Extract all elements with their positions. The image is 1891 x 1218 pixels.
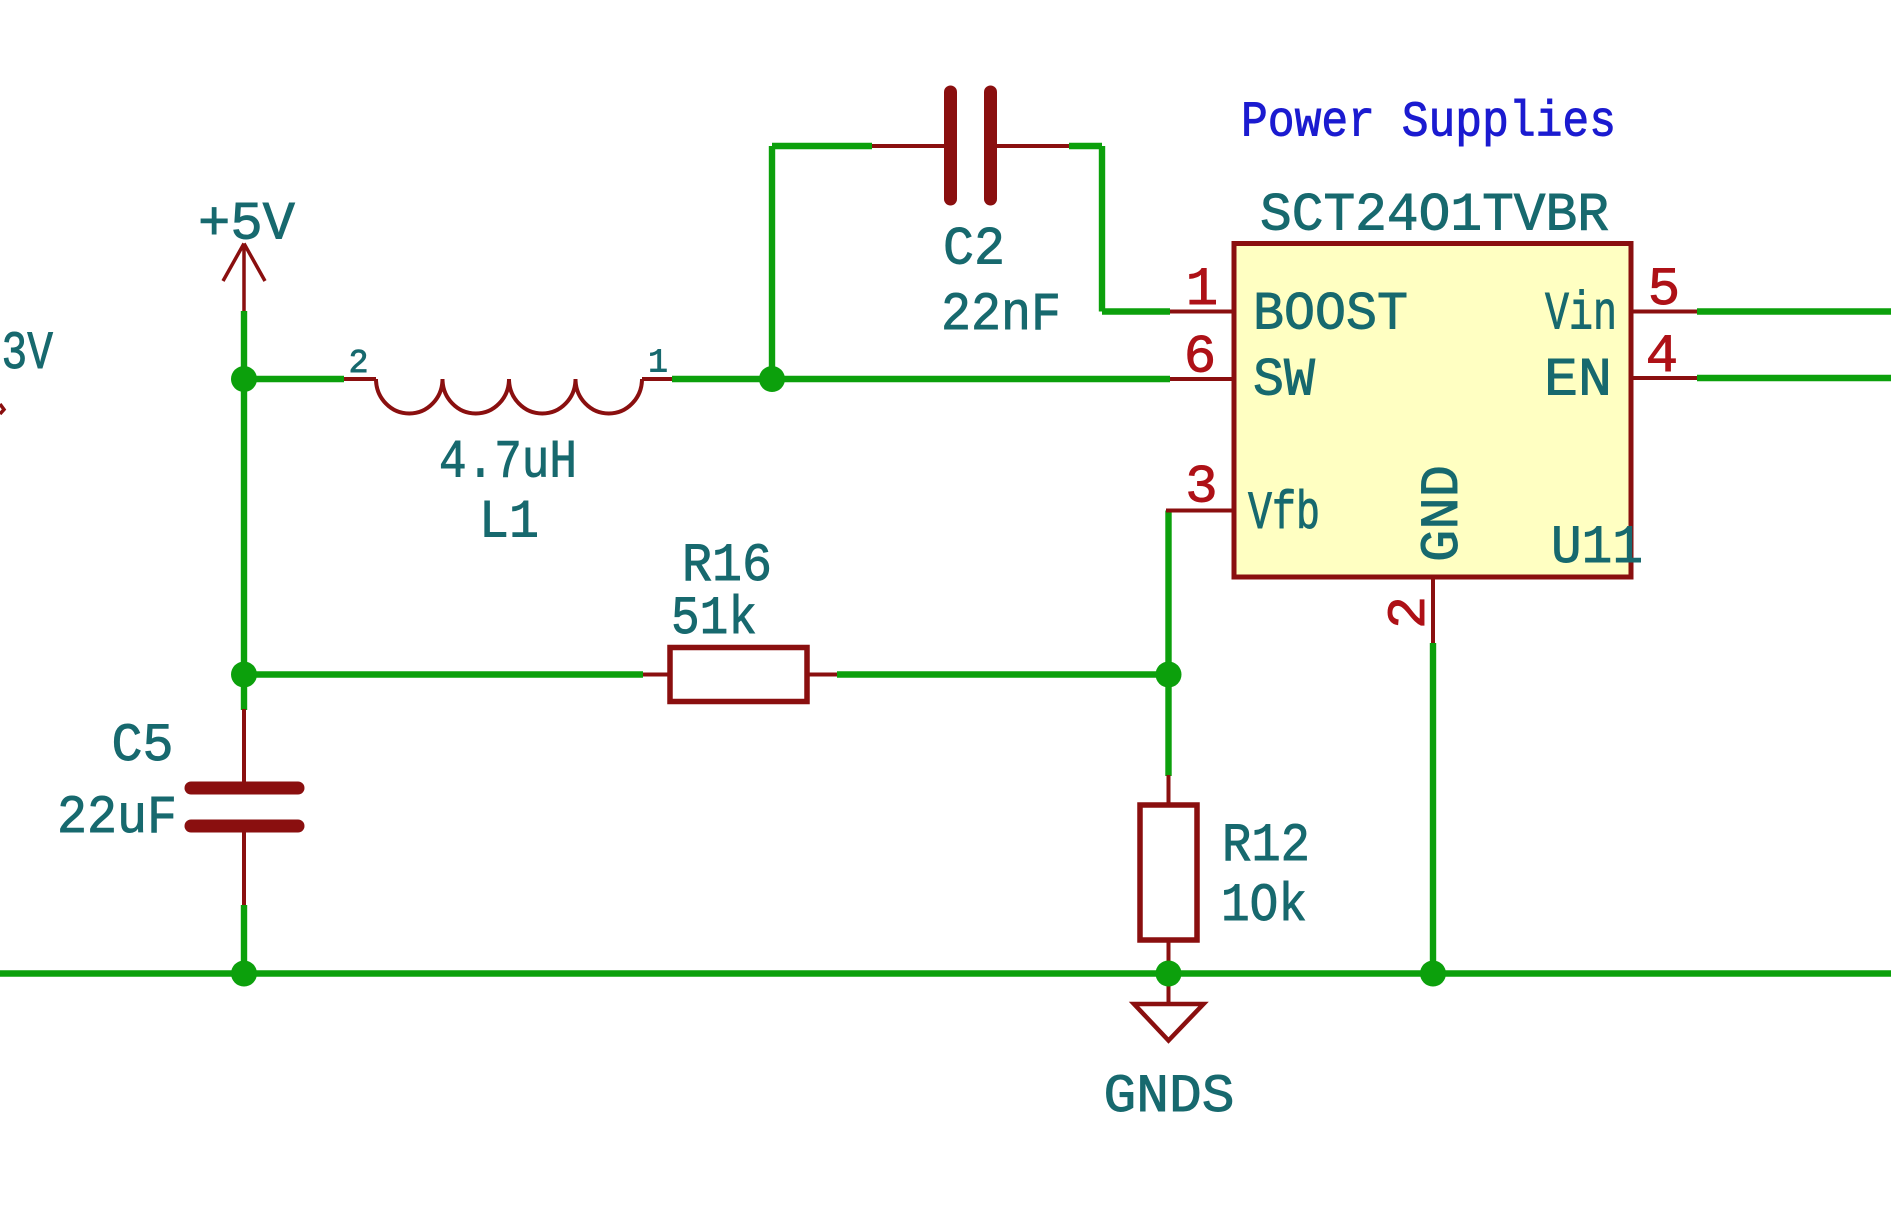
svg-text:6: 6 — [1184, 327, 1216, 388]
pin 1 stub of L1 — [642, 377, 672, 381]
pin 1 stub of C2 — [872, 144, 944, 148]
wire C2 right leg vertical — [1099, 146, 1105, 312]
capacitor C5 — [57, 709, 298, 906]
wire SW net: inductor pin 1 to IC pin 6 — [672, 376, 1170, 382]
pin 1 stub of R16 — [643, 673, 670, 677]
svg-text:5: 5 — [1648, 260, 1680, 321]
svg-text:1Ok: 1Ok — [1221, 876, 1307, 937]
resistor R12 — [1140, 675, 1310, 1005]
pin 2 stub of R16 — [807, 673, 837, 677]
svg-text:1: 1 — [1186, 260, 1218, 321]
junction at Vfb node (1168.5,674.5) — [1156, 662, 1182, 688]
wire +5V vertical — [241, 311, 247, 379]
svg-text:SCT24O1TVBR: SCT24O1TVBR — [1260, 185, 1609, 246]
svg-text:2: 2 — [349, 345, 369, 382]
wire R16 net: left node to R16 — [244, 671, 643, 677]
pin 3 Vfb stub — [1166, 509, 1234, 513]
wire C2 left leg vertical — [769, 146, 775, 379]
pin 1 stub of R12 — [1167, 775, 1171, 805]
wire C5 bottom vertical — [241, 905, 247, 974]
svg-text:SW: SW — [1253, 351, 1316, 412]
svg-text:BOOST: BOOST — [1253, 285, 1408, 346]
pin 2 stub of R12 down through bus to GNDS symbol — [1167, 940, 1171, 1004]
svg-text:3.3V: 3.3V — [0, 324, 53, 385]
body of R12 — [1140, 805, 1197, 940]
wire Vin net to right edge — [1697, 308, 1891, 314]
op-amp/regulator IC U11 — [1166, 185, 1697, 643]
pin 2 stub of C2 — [997, 144, 1069, 148]
svg-text:4.7uH: 4.7uH — [439, 433, 577, 494]
coil arcs of L1 — [376, 379, 642, 414]
svg-text:GND: GND — [1413, 465, 1474, 562]
pin 5 Vin stub — [1631, 310, 1697, 314]
pin 1 BOOST stub — [1170, 310, 1234, 314]
right plate of C2 — [984, 92, 997, 199]
svg-text:C2: C2 — [943, 219, 1005, 280]
svg-text:1: 1 — [648, 345, 668, 382]
pin 6 SW stub — [1170, 377, 1234, 381]
ground symbol GNDS — [1104, 1004, 1235, 1128]
svg-text:22nF: 22nF — [941, 285, 1061, 346]
pin 2 GND stub — [1431, 577, 1435, 643]
svg-text:Vfb: Vfb — [1248, 484, 1320, 545]
svg-text:U11: U11 — [1551, 518, 1643, 579]
wire SW net: +5V node to inductor pin 2 — [244, 376, 344, 382]
capacitor C2 — [872, 92, 1069, 346]
wire GND bus horizontal full width — [0, 970, 1891, 976]
wire left vertical from +5V node down to R16 node — [241, 379, 247, 675]
pin 4 EN stub — [1631, 376, 1697, 380]
wire Vfb net vertical — [1165, 511, 1171, 675]
left plate of C2 — [944, 92, 957, 199]
svg-text:3: 3 — [1185, 457, 1217, 518]
junction at GND pin node (1433,973.5) — [1420, 961, 1446, 987]
svg-text:22uF: 22uF — [57, 788, 177, 849]
junction at C5 bottom node (244,973.5) — [231, 961, 257, 987]
wire from Vfb node down to R12 — [1165, 675, 1171, 777]
wire EN net to right edge — [1697, 375, 1891, 381]
svg-text:Power Supplies: Power Supplies — [1241, 95, 1616, 152]
svg-text:R12: R12 — [1222, 816, 1310, 877]
wire C2 right leg top horizontal — [1069, 143, 1102, 149]
wire R16 net: R16 to Vfb node — [837, 671, 1169, 677]
power symbol +5V — [198, 195, 296, 312]
bottom plate of C5 — [191, 820, 298, 833]
svg-text:GNDS: GNDS — [1104, 1067, 1235, 1128]
pin 1 stub of C5 — [242, 709, 246, 783]
wire C5 top vertical — [241, 675, 247, 711]
svg-text:4: 4 — [1646, 327, 1678, 388]
resistor R16 — [643, 536, 837, 702]
svg-text:2: 2 — [1380, 596, 1441, 629]
junction at +5V node (244,379) — [231, 366, 257, 392]
svg-text:C5: C5 — [112, 716, 174, 777]
pin 2 stub of L1 — [344, 377, 376, 381]
inductor L1 — [344, 345, 672, 554]
power symbol +3.3V arrow barb at left edge — [0, 404, 4, 414]
junction at SW node (772,379) — [759, 366, 785, 392]
svg-text:EN: EN — [1544, 351, 1612, 412]
junction at GNDS node (1168.5,973.5) — [1156, 961, 1182, 987]
svg-text:Vin: Vin — [1545, 285, 1617, 346]
svg-text:51k: 51k — [671, 589, 757, 650]
wire C2 top left horizontal — [772, 143, 872, 149]
triangle of GNDS — [1134, 1004, 1204, 1041]
wire GND pin 2 vertical — [1430, 643, 1436, 974]
junction at R16 left node (244,674.5) — [231, 662, 257, 688]
top plate of C5 — [191, 782, 298, 795]
pin 2 stub of C5 — [242, 832, 246, 906]
svg-text:L1: L1 — [479, 493, 539, 554]
wire BOOST net horizontal — [1102, 308, 1170, 314]
body of U11 — [1234, 244, 1631, 578]
svg-text:R16: R16 — [682, 536, 772, 597]
body of R16 — [670, 648, 807, 702]
